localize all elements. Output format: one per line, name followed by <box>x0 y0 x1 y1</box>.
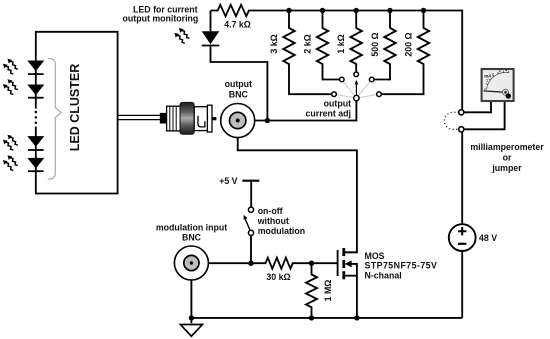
svg-text:modulation: modulation <box>258 226 305 236</box>
svg-text:1 kΩ: 1 kΩ <box>336 34 346 53</box>
svg-text:2 kΩ: 2 kΩ <box>303 34 313 53</box>
svg-text:1 MΩ: 1 MΩ <box>323 280 333 302</box>
svg-text:output: output <box>324 99 351 109</box>
svg-text:500 Ω: 500 Ω <box>370 32 380 56</box>
svg-text:STP75NF75-75V: STP75NF75-75V <box>365 261 438 271</box>
svg-text:N-chanal: N-chanal <box>365 271 402 281</box>
svg-text:3 kΩ: 3 kΩ <box>269 34 279 53</box>
svg-text:or: or <box>503 152 512 162</box>
svg-text:BNC: BNC <box>229 89 249 99</box>
svg-text:output monitoring: output monitoring <box>123 14 199 24</box>
svg-text:4.7 kΩ: 4.7 kΩ <box>224 20 251 30</box>
svg-text:MOS: MOS <box>365 251 385 261</box>
svg-text:200 Ω: 200 Ω <box>404 32 414 56</box>
svg-text:modulation input: modulation input <box>156 222 227 232</box>
svg-text:2: 2 <box>492 72 494 76</box>
svg-text:mA: mA <box>484 74 492 79</box>
svg-text:output: output <box>225 79 252 89</box>
svg-text:current adj: current adj <box>306 109 351 119</box>
svg-text:on-off: on-off <box>258 206 283 216</box>
svg-text:30 kΩ: 30 kΩ <box>266 272 290 282</box>
svg-text:milliamperometer: milliamperometer <box>470 142 544 152</box>
svg-text:LED CLUSTER: LED CLUSTER <box>68 64 82 152</box>
svg-text:48 V: 48 V <box>479 233 497 243</box>
svg-text:4: 4 <box>506 69 508 73</box>
svg-text:jumper: jumper <box>491 163 522 173</box>
svg-text:without: without <box>257 216 289 226</box>
svg-text:3: 3 <box>499 69 501 73</box>
svg-text:+5 V: +5 V <box>219 176 237 186</box>
svg-text:BNC: BNC <box>182 232 202 242</box>
svg-text:1: 1 <box>486 79 488 83</box>
